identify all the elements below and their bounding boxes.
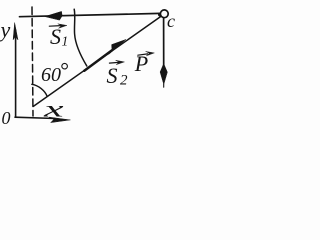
svg-text:S: S <box>107 63 118 88</box>
label S2 <box>107 63 129 89</box>
svg-text:1: 1 <box>62 34 69 49</box>
wall dashed line <box>32 7 33 116</box>
cut squiggle between rope and rod <box>74 9 87 66</box>
svg-text:2: 2 <box>120 72 128 88</box>
y-axis <box>13 23 18 117</box>
label P over-arrow <box>138 51 154 55</box>
label S2 over-arrow <box>109 60 124 64</box>
rope BC (top line) <box>20 13 161 16</box>
weight vector P (hanging load) <box>160 18 167 87</box>
svg-text:x: x <box>43 96 64 122</box>
svg-text:c: c <box>167 11 175 31</box>
svg-text:60: 60 <box>41 64 61 86</box>
svg-text:P: P <box>134 51 148 76</box>
angle arc 60 <box>32 84 47 96</box>
vector S1 arrowhead <box>45 11 62 20</box>
label S1 <box>50 24 68 49</box>
svg-text:y: y <box>0 17 11 42</box>
svg-text:S: S <box>50 24 61 49</box>
rod AC (diagonal) <box>34 16 161 106</box>
svg-text:0: 0 <box>2 108 11 128</box>
label S1 over-arrow <box>49 24 67 28</box>
x-axis <box>15 117 70 122</box>
pulley C <box>160 10 168 18</box>
svg-text:°: ° <box>60 58 69 83</box>
vector S2 arrow <box>84 40 126 71</box>
junction blob at pulley <box>158 13 162 17</box>
